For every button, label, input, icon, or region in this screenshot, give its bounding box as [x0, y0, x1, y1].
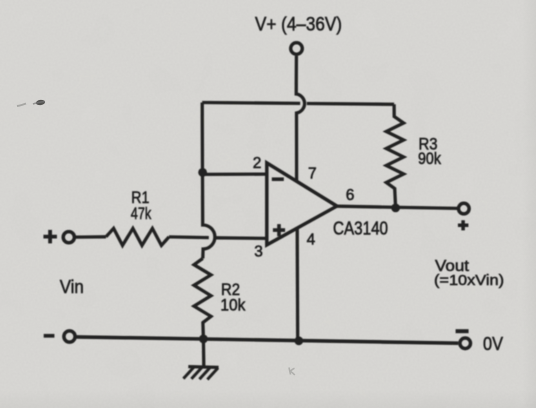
- minus polarity at input: [44, 334, 55, 338]
- node R2 ground junction: [199, 335, 208, 344]
- wire R1 to hop gap: [169, 235, 209, 239]
- svg-text:Vin: Vin: [60, 276, 84, 297]
- wire from + input terminal to R1: [76, 235, 106, 239]
- node inverting input junction: [198, 168, 207, 177]
- svg-text:90k: 90k: [418, 150, 442, 168]
- svg-text:(=10xVin): (=10xVin): [434, 272, 504, 289]
- resistor R3: [386, 104, 403, 205]
- svg-text:4: 4: [307, 231, 316, 248]
- resistor R2: [194, 258, 211, 339]
- svg-text:10k: 10k: [220, 296, 246, 314]
- terminal 0V: [460, 338, 471, 349]
- minus polarity at 0V: [456, 329, 469, 333]
- ground: [183, 339, 218, 380]
- terminal V+: [291, 43, 303, 55]
- svg-text:0V: 0V: [483, 333, 504, 354]
- faint smudge below pin4 rail: [289, 368, 295, 376]
- svg-text:6: 6: [346, 187, 355, 204]
- wire feedback top rail right segment: [307, 102, 394, 106]
- plus polarity at input: [43, 230, 57, 244]
- svg-text:7: 7: [308, 165, 317, 182]
- svg-text:47k: 47k: [131, 205, 152, 223]
- op-amp non-inverting plus symbol: [273, 224, 285, 236]
- terminal + input: [63, 232, 74, 243]
- wire bottom 0V rail: [76, 337, 458, 343]
- wire pin2 to op-amp: [202, 172, 266, 176]
- wire V+ drop with hop over feedback rail: [296, 56, 304, 182]
- node output junction: [391, 204, 400, 213]
- svg-text:2: 2: [253, 155, 262, 172]
- plus polarity at output: [458, 220, 469, 230]
- node pin4 ground junction: [294, 336, 303, 345]
- wire feedback left vertical with hop over R1 wire: [202, 103, 215, 259]
- svg-text:CA3140: CA3140: [333, 219, 388, 239]
- terminal output: [459, 203, 470, 214]
- resistor R1: [106, 228, 169, 245]
- svg-text:3: 3: [254, 244, 263, 261]
- wire pin4 to ground rail: [296, 229, 300, 341]
- svg-text:V+ (4–36V): V+ (4–36V): [255, 14, 342, 36]
- pen smudge artifact: [17, 99, 45, 106]
- terminal - input: [64, 331, 75, 342]
- op-amp U1 CA3140 triangle: [267, 163, 337, 245]
- op-amp inverting minus symbol: [272, 177, 284, 181]
- wire op-amp output: [337, 206, 457, 208]
- wire hop gap to op-amp pin3: [216, 236, 267, 240]
- wire feedback top rail left segment: [202, 101, 300, 105]
